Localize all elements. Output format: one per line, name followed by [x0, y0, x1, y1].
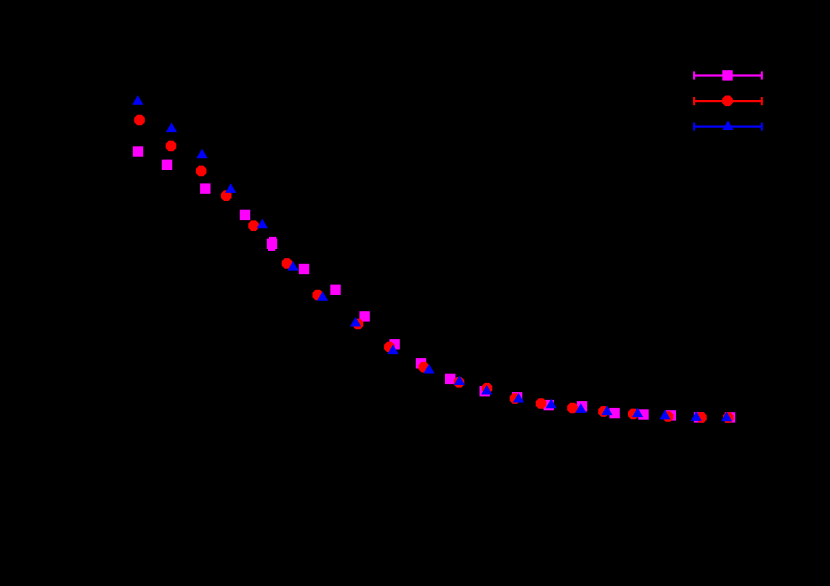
- red circle point 2: [166, 141, 177, 152]
- red circle point 6: [282, 258, 293, 269]
- legend marker 1: magenta square: [722, 70, 732, 80]
- magenta square point 12: [480, 386, 490, 396]
- magenta square point 15: [577, 401, 587, 411]
- legend marker 2: red circle: [722, 96, 733, 107]
- red circle point 4: [221, 190, 232, 201]
- red circle point 18: [663, 411, 674, 422]
- magenta square point 1: [133, 146, 143, 156]
- blue triangle point 4: [225, 183, 236, 193]
- blue triangle point 13: [513, 393, 524, 403]
- blue triangle point 6: [287, 261, 298, 271]
- blue triangle point 16: [601, 406, 612, 416]
- magenta square point 2: [162, 160, 172, 170]
- blue triangle point 5: [257, 219, 268, 229]
- red circle point 12: [482, 383, 493, 394]
- red circle point 15: [567, 403, 578, 414]
- magenta square point 8: [359, 311, 369, 321]
- magenta errorbar caps point 5: [269, 237, 276, 239]
- red circle point 9: [384, 342, 395, 353]
- blue triangle point 20: [721, 412, 732, 422]
- blue triangle point 11: [454, 375, 465, 385]
- blue triangle point 3: [196, 149, 207, 159]
- blue triangle point 17: [632, 408, 643, 418]
- blue triangle point 19: [691, 411, 702, 421]
- magenta square point 16: [609, 408, 619, 418]
- blue triangle point 7: [317, 291, 328, 301]
- magenta square point 6: [299, 264, 309, 274]
- red circle point 8: [353, 319, 364, 330]
- magenta square point 5: [267, 239, 277, 249]
- magenta square point 3: [200, 183, 210, 193]
- magenta square point 11: [445, 374, 455, 384]
- magenta square point 7: [330, 285, 340, 295]
- red circle point 11: [454, 377, 465, 388]
- magenta square point 18: [666, 410, 676, 420]
- red circle point 20: [723, 412, 734, 423]
- red circle point 3: [196, 166, 207, 177]
- red circle point 5: [248, 220, 259, 231]
- red circle point 13: [510, 393, 521, 404]
- red circle point 19: [696, 412, 707, 423]
- legend marker 3: blue triangle: [722, 120, 733, 130]
- magenta square point 10: [416, 358, 426, 368]
- blue triangle point 10: [423, 364, 434, 374]
- magenta square point 14: [544, 400, 554, 410]
- blue triangle point 8: [350, 317, 361, 327]
- blue triangle point 2: [166, 123, 177, 133]
- blue triangle point 9: [387, 345, 398, 355]
- magenta square point 9: [389, 339, 399, 349]
- legend entry 3: blue errorbar sample: [693, 126, 763, 128]
- magenta square point 19: [694, 412, 704, 422]
- legend entry 2: red errorbar sample: [693, 100, 763, 102]
- blue triangle point 1: [132, 95, 143, 105]
- blue triangle point 15: [575, 403, 586, 413]
- red circle point 7: [313, 290, 324, 301]
- legend entry 1: magenta errorbar sample: [693, 74, 763, 76]
- red circle point 10: [419, 362, 430, 373]
- magenta square point 20: [725, 412, 735, 422]
- magenta square point 4: [240, 210, 250, 220]
- magenta square point 17: [638, 409, 648, 419]
- blue triangle point 14: [546, 399, 557, 409]
- blue triangle point 18: [659, 410, 670, 420]
- red circle point 17: [628, 409, 639, 420]
- red circle point 1: [134, 115, 145, 126]
- red circle point 14: [536, 398, 547, 409]
- red circle point 16: [598, 406, 609, 417]
- magenta square point 13: [512, 392, 522, 402]
- blue triangle point 12: [481, 385, 492, 395]
